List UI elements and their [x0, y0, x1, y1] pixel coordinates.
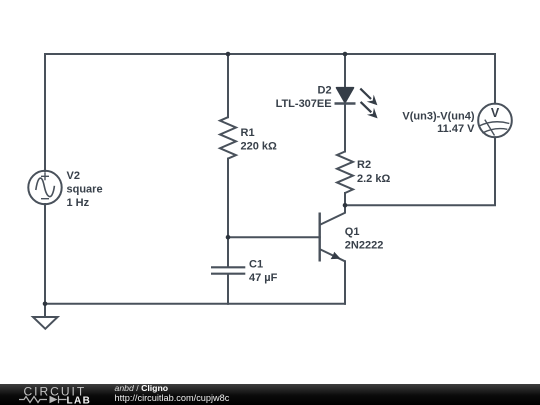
ground	[33, 317, 58, 329]
svg-text:V: V	[491, 106, 500, 120]
wire V2 bottom to ground	[44, 204, 46, 317]
node dot ground	[43, 302, 48, 307]
resistor R2	[337, 152, 353, 194]
svg-text:C1: C1	[249, 259, 263, 271]
svg-text:1 Hz: 1 Hz	[67, 197, 90, 209]
node dot collector	[343, 203, 348, 208]
voltage source V2	[28, 171, 61, 204]
svg-text:LAB: LAB	[67, 395, 92, 405]
svg-text:R1: R1	[241, 127, 255, 139]
wire Q1 emitter down	[344, 261, 346, 304]
wire D2 cathode to R2	[344, 104, 346, 152]
wire top rail	[45, 53, 495, 55]
wire base node to Q1	[228, 236, 320, 238]
LED emission arrow 2	[361, 102, 378, 119]
svg-text:D2: D2	[318, 85, 332, 97]
svg-text:47 µF: 47 µF	[249, 272, 278, 284]
svg-text:Q1: Q1	[345, 226, 360, 238]
wire bottom rail	[45, 303, 345, 305]
svg-text:11.47 V: 11.47 V	[437, 123, 475, 135]
wire R2 bottom to collector node	[344, 193, 346, 205]
LED D2	[335, 88, 378, 119]
voltmeter	[478, 104, 512, 138]
svg-text:V2: V2	[67, 170, 80, 182]
LED emission arrow 1	[360, 89, 377, 106]
wire voltmeter top	[494, 54, 496, 104]
wire R1 top	[227, 54, 229, 117]
wire D2 top	[344, 54, 346, 89]
footer bar	[0, 383, 540, 405]
node dot top D2	[343, 52, 348, 57]
transistor Q1	[320, 205, 345, 261]
svg-text:V(un3)-V(un4): V(un3)-V(un4)	[402, 111, 474, 123]
svg-text:2.2 kΩ: 2.2 kΩ	[357, 173, 390, 185]
svg-text:LTL-307EE: LTL-307EE	[276, 98, 332, 110]
node dot base	[226, 235, 231, 240]
resistor R1	[220, 117, 236, 158]
svg-text:anbd / Cligno: anbd / Cligno	[115, 383, 169, 393]
wire C1 bottom	[227, 274, 229, 304]
node dot top R1	[226, 52, 231, 57]
capacitor C1	[211, 267, 245, 273]
wire V2 top	[44, 54, 46, 171]
svg-text:220 kΩ: 220 kΩ	[241, 141, 278, 153]
svg-text:R2: R2	[357, 159, 371, 171]
svg-text:square: square	[67, 184, 103, 196]
svg-text:2N2222: 2N2222	[345, 240, 384, 252]
wire R1 bottom to C1	[227, 159, 229, 267]
wire collector node to voltmeter	[345, 137, 495, 205]
svg-text:http://circuitlab.com/cupjw8c: http://circuitlab.com/cupjw8c	[115, 393, 230, 403]
